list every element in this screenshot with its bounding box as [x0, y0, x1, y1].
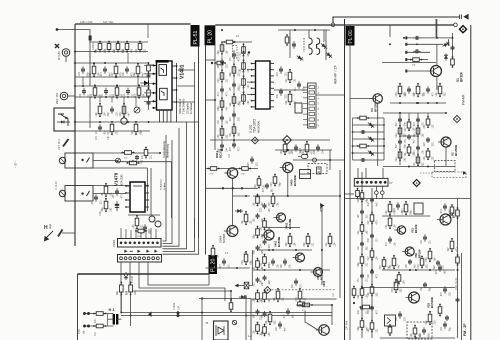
resistor R293 [238, 91, 250, 104]
node junction [436, 37, 438, 39]
resistor R66 [438, 304, 442, 317]
capacitor C1432 [147, 100, 151, 105]
antenna arrow top right [460, 14, 469, 20]
svg-text:4n7: 4n7 [104, 48, 107, 53]
capacitor C222 [414, 145, 424, 154]
input arrow LML [56, 28, 59, 31]
label V3 [370, 103, 377, 112]
wire ZF column 2 [371, 188, 373, 338]
node on border 3 [74, 121, 76, 123]
wire AF right column [321, 205, 323, 285]
wire ladder spine right [383, 118, 385, 160]
node junction [268, 249, 270, 251]
filter block FL51 [414, 203, 423, 214]
svg-text:221: 221 [116, 130, 119, 135]
resistor R57 [447, 238, 459, 252]
resistor R65 [367, 284, 379, 297]
node junction [415, 269, 417, 271]
pin strip X270 pin 5 stub [303, 108, 308, 110]
wire left border of keyboard block [77, 274, 79, 340]
IC V1470 right pin 7 [145, 199, 149, 201]
pin strip X270 pin 5 [309, 107, 315, 110]
IC V1401 pin 5 [152, 100, 156, 102]
svg-text:TDA 1072: TDA 1072 [252, 119, 256, 133]
capacitor C12 [413, 49, 421, 53]
resistor R65 [394, 272, 406, 285]
capacitor C202 [396, 139, 406, 148]
connector P1401 pin 4 [133, 242, 136, 245]
svg-text:BC558B: BC558B [277, 237, 281, 247]
resistor R53 [450, 204, 454, 216]
svg-text:332: 332 [274, 320, 277, 325]
svg-text:472: 472 [95, 135, 98, 140]
svg-text:2k2: 2k2 [259, 226, 262, 231]
svg-text:102: 102 [261, 202, 264, 207]
IC V1401 pin 2 [152, 73, 156, 75]
wire row B bottom rail [75, 76, 148, 78]
wire FM mid top rail [383, 112, 445, 114]
node junction [233, 139, 235, 141]
wire V3 emitter down [377, 103, 379, 166]
svg-text:473: 473 [379, 265, 382, 270]
node junction [371, 269, 373, 271]
wire AM column 3 chain [243, 45, 245, 103]
transistor V2 [438, 137, 451, 147]
wire ZF lower rail [362, 287, 455, 289]
capacitor C403 [254, 245, 264, 254]
IC V1401 right pin 11 [172, 65, 177, 67]
node junction [82, 85, 84, 87]
resistor R430 [254, 176, 266, 189]
svg-text:BF256: BF256 [373, 103, 377, 112]
wire AM top-left rail [222, 41, 252, 43]
pin strip X270 outline [308, 83, 317, 128]
wire V400 down [287, 173, 289, 197]
resistor R52 [401, 201, 413, 215]
resistor R1603 [93, 312, 106, 316]
wire collector rail V1403 [233, 195, 251, 197]
resistor R1602 [125, 282, 137, 296]
resistor R212 [404, 144, 416, 157]
wire AM input column [214, 40, 216, 150]
preset wiper mark 2 [87, 191, 90, 196]
resistor R1408 [141, 147, 153, 159]
pin strip X270 pin 7 stub [303, 119, 308, 121]
connector X51 pin 1 [356, 181, 359, 184]
IC V1401 pin 1 [152, 64, 156, 66]
capacitor C275 [218, 114, 228, 124]
arrow A5U [320, 203, 325, 208]
capacitor C280 [230, 51, 240, 61]
connector X1401 socket [118, 255, 162, 263]
resistor R21 [357, 116, 369, 120]
node AM b [211, 62, 213, 64]
wire X1401 pin3 to AF block [130, 262, 231, 299]
resistor R1504 [134, 84, 146, 98]
resistor R58 [357, 318, 369, 331]
wire antenna rail drop [436, 19, 438, 38]
resistor R54 [357, 254, 369, 267]
IC V1401 right bus [176, 63, 178, 122]
resistor R13 [451, 56, 455, 68]
node on border 1 [74, 62, 76, 64]
varicap V4 [441, 39, 451, 49]
IC V270 left pin 5 [251, 87, 256, 89]
capacitor C11 [413, 36, 421, 40]
svg-text:104: 104 [104, 112, 107, 117]
IC V1401 pin 6 [152, 107, 156, 109]
resistor R1512 [133, 63, 145, 77]
node junction [361, 287, 363, 289]
wire left border of FM block [349, 25, 351, 340]
dashed filter box F282 [308, 164, 327, 174]
resistor R221 [413, 125, 425, 138]
capacitor C66 [368, 305, 378, 314]
svg-text:68p: 68p [357, 326, 360, 331]
svg-text:332: 332 [238, 132, 241, 137]
resistor R58 [391, 279, 403, 293]
svg-text:223: 223 [395, 133, 398, 138]
capacitor C52 [441, 203, 451, 213]
pin strip X270 pin 6 [309, 113, 315, 116]
capacitor C51 [394, 202, 404, 212]
wire bottom rail of RF divider [75, 51, 148, 53]
component MX1401 [244, 282, 249, 289]
svg-text:221: 221 [141, 224, 144, 229]
capacitor C220 [414, 117, 424, 126]
node junction [399, 112, 401, 114]
node junction [214, 99, 216, 101]
capacitor C65 [421, 282, 431, 291]
svg-text:223: 223 [270, 182, 273, 187]
capacitor C424 [276, 321, 286, 331]
diode V21 [367, 121, 376, 129]
trimmer circle C1470 [116, 158, 121, 163]
wire V1401 pin 3 lead [144, 83, 153, 85]
resistor R52 [357, 222, 369, 235]
connector P1401 plug [118, 239, 162, 248]
wire ladder rung 6 [353, 152, 385, 154]
wire FM mid column 1 [399, 113, 401, 165]
junction pair a [83, 312, 90, 315]
wire ZF mid rail [382, 269, 455, 271]
svg-text:2k2: 2k2 [404, 157, 407, 162]
opto IC V1602 box [214, 321, 229, 340]
svg-text:151: 151 [101, 192, 104, 197]
node AF m2 [295, 249, 297, 251]
node junction [389, 43, 391, 45]
svg-text:V402: V402 [285, 222, 289, 229]
svg-text:104: 104 [334, 242, 337, 247]
svg-text:104: 104 [178, 305, 181, 310]
IC V270 left pin 4 [251, 81, 256, 83]
connector X1401 pin 2 [124, 257, 127, 260]
IC V1401 right pin 13 [172, 89, 177, 91]
capacitor C1502 [80, 88, 90, 98]
IC V270 left pin 8 [251, 106, 256, 108]
resistor R154 [135, 41, 147, 53]
resistor R50 [356, 188, 360, 200]
wire FM mid stub 2 [427, 113, 429, 119]
connector X51 pin 7 [384, 181, 387, 184]
wire X51 pin to node b [381, 186, 383, 191]
plug arrow mark 4 [154, 250, 157, 253]
wire inner border FM-ZF block [461, 253, 463, 340]
connector X1401 pin 3 [129, 257, 132, 260]
IC V1401 inner transistor a [161, 68, 164, 73]
svg-text:2k2: 2k2 [247, 100, 250, 105]
svg-text:221: 221 [325, 242, 328, 247]
resistor R270b [214, 61, 226, 65]
relay box K400 [300, 170, 311, 179]
wire V1401 pin 5 lead [144, 100, 153, 102]
node below V401 c [241, 187, 243, 189]
svg-text:221: 221 [259, 298, 262, 303]
plug arrow mark 3 [146, 250, 149, 253]
node junction [147, 185, 149, 187]
resistor R406 [252, 290, 264, 303]
wire H1 bottom rail [83, 325, 114, 327]
varicap V5 [444, 54, 448, 61]
wire top border of keyboard block [78, 273, 209, 275]
dashed filter box F1b [432, 172, 466, 178]
resistor R230 [423, 116, 435, 129]
dashed box F53 [407, 322, 432, 339]
label V405 [322, 280, 326, 287]
svg-text:473: 473 [107, 130, 110, 135]
label V400 [290, 175, 297, 186]
IC V1401 right pin 14 [172, 101, 177, 103]
wire node a down [375, 195, 377, 199]
svg-text:332: 332 [444, 92, 447, 97]
test point diamond near V1 [458, 25, 467, 34]
capacitor C282 [230, 81, 240, 91]
bus junction pair [177, 311, 180, 317]
svg-text:V401: V401 [274, 240, 278, 247]
capacitor C22 [360, 158, 366, 162]
resistor R270 [217, 41, 229, 54]
wire FM rail 5 to V1 [407, 70, 429, 72]
svg-text:PL-51: PL-51 [193, 31, 199, 45]
node junction [243, 51, 245, 53]
transistor V407 [316, 325, 330, 336]
resistor R404 [252, 258, 264, 271]
wire diamond to rail [286, 144, 288, 150]
svg-text:1k5: 1k5 [135, 48, 138, 53]
transistor V1501 inside tuner box [57, 114, 70, 126]
svg-text:BF199: BF199 [414, 224, 418, 233]
node junction [403, 37, 405, 39]
capacitor C407 [254, 309, 264, 318]
capacitor C1506 [108, 106, 118, 116]
preset box 1 [65, 153, 93, 168]
svg-text:104: 104 [132, 224, 135, 229]
svg-text:1k5: 1k5 [226, 50, 229, 55]
svg-text:V1470: V1470 [114, 172, 119, 186]
transistor V406 [293, 253, 305, 262]
module tag PL-51 [191, 25, 200, 47]
wire preset 1 top out [93, 152, 160, 154]
capacitor C410 [261, 203, 271, 212]
resistor R424 [273, 288, 285, 302]
IC V270 left pin 7 [251, 100, 256, 102]
node junction [120, 312, 122, 314]
label V51 [411, 224, 418, 233]
IC V1401 inner block 2 [160, 88, 168, 100]
node ladder c [352, 131, 354, 133]
trimmer C246 [313, 158, 317, 162]
node emitter rail a [399, 102, 401, 104]
test point diamond AM out [283, 136, 292, 145]
plug dash mark [130, 250, 134, 252]
node preset box 1 [81, 159, 83, 161]
node junction [436, 102, 438, 104]
label V62 [448, 209, 455, 218]
node junction [299, 269, 301, 271]
svg-text:4n7: 4n7 [398, 264, 401, 269]
capacitor C62 [456, 297, 460, 303]
node on border 2 [74, 85, 76, 87]
svg-text:68p: 68p [250, 260, 253, 265]
node junction [201, 312, 203, 314]
svg-text:104: 104 [113, 48, 116, 53]
capacitor C211 [405, 134, 415, 143]
wire keyboard line 6 into P1401 [145, 230, 147, 238]
wire ladder rung 2 [353, 124, 385, 126]
discriminator box F52 [385, 315, 396, 326]
resistor R411 [259, 218, 271, 231]
wire antenna branch [89, 40, 91, 86]
svg-text:2k2: 2k2 [238, 68, 241, 73]
wire keyboard line 5 into P1401 [140, 229, 142, 238]
IC V1470 outline [130, 182, 145, 212]
node junction [329, 159, 331, 161]
IC V270 right pin 10 [270, 69, 274, 71]
IC V270 right pin 16 [270, 106, 274, 108]
label V401 [274, 237, 281, 247]
electrolytic capacitor C1509 [121, 118, 127, 124]
transistor V401 middle [224, 168, 237, 178]
node junction [148, 121, 150, 123]
resistor R421 [285, 233, 297, 247]
wire keyboard line 1 into P1401 [120, 228, 122, 238]
resistor R59 [425, 311, 437, 325]
wire ZF rail 2 [382, 215, 430, 217]
capacitor C200 [396, 117, 406, 126]
wire right drop [245, 295, 247, 340]
resistor R55 [389, 255, 401, 269]
label V401 middle [215, 148, 222, 158]
node junction [94, 51, 96, 53]
node junction [115, 76, 117, 78]
svg-text:473: 473 [238, 84, 241, 89]
svg-text:151: 151 [263, 184, 266, 189]
svg-text:100u: 100u [99, 210, 102, 216]
resistor R423 [325, 233, 337, 247]
ferrite bead on input [89, 36, 92, 41]
wire R1602 down [130, 292, 132, 326]
transistor V400 [280, 163, 293, 173]
wire ZF rail top [345, 198, 470, 200]
connector X51 pin 5 [375, 181, 378, 184]
connector GB400 [317, 167, 322, 174]
resistor R276 [217, 125, 229, 138]
svg-text:AM SIGNAL: AM SIGNAL [258, 120, 261, 133]
svg-text:4n7: 4n7 [367, 220, 370, 225]
capacitor C61 [441, 321, 451, 331]
capacitor C1471 [113, 188, 123, 198]
wire preset 2 mid out [93, 193, 126, 195]
wire into X51 c [382, 168, 384, 178]
crystal B1470 [149, 216, 161, 227]
capacitor C56 [436, 264, 446, 274]
wire MX1401 to column [249, 285, 253, 287]
wire FM supply drop [389, 25, 391, 37]
capacitor C60 [420, 327, 430, 337]
wire AF far right column [339, 170, 341, 298]
svg-text:1k5: 1k5 [273, 297, 276, 302]
capacitor C1511 [101, 66, 111, 76]
svg-text:C1501: C1501 [92, 42, 95, 50]
wire ladder rung 5 [353, 145, 385, 147]
resistor R1505 [95, 103, 107, 117]
relay box mark [300, 173, 311, 175]
capacitor C1510 [79, 66, 89, 76]
wire V1401 pin1 feed [149, 64, 154, 66]
resistor R1421 [207, 167, 219, 176]
svg-text:104: 104 [268, 226, 271, 231]
capacitor C17 [424, 86, 434, 96]
IC V1401 bottom pin 9 [166, 110, 168, 123]
rail start tick [405, 70, 407, 73]
coil L280 [309, 38, 312, 54]
resistor R56 [357, 286, 369, 299]
wire V1401 to border 2 [178, 85, 196, 87]
wire to V270 pin 4 [247, 81, 252, 83]
svg-text:1k5: 1k5 [125, 290, 128, 295]
svg-text:104: 104 [394, 224, 397, 229]
test point ZF input diamond [412, 179, 421, 188]
wire H1 left link [107, 314, 109, 327]
node X51 a [375, 191, 379, 195]
node junction [159, 152, 161, 154]
wire keyboard rail across [199, 298, 251, 300]
IC V1401 bottom pin 10 [170, 110, 172, 123]
wire keyboard line 4 into P1401 [135, 228, 137, 238]
pin strip X270 pin 4 stub [303, 102, 308, 104]
wire X51 pin to node a [375, 186, 377, 191]
wire keyboard drop [201, 299, 203, 340]
connector P1401 pin 7 [147, 242, 150, 245]
resistor R1601 [116, 282, 128, 296]
connector P1401 pin 2 [124, 242, 127, 245]
svg-text:2x Netzteil: 2x Netzteil [190, 102, 193, 114]
resistor R402 [252, 226, 264, 239]
svg-text:BF256B: BF256B [454, 144, 458, 156]
arrow left end of rails [148, 312, 152, 318]
dashed wire into F1 [420, 172, 432, 174]
preset pot P1 socket [59, 157, 65, 163]
svg-text:473: 473 [268, 202, 271, 207]
resistor R201 [395, 125, 407, 138]
pin strip X270 pin 1 [309, 86, 315, 89]
node at PL06 branch [331, 23, 335, 27]
svg-text:68p: 68p [279, 182, 282, 187]
connector P1401 pin 1 [120, 242, 123, 245]
svg-text:104: 104 [403, 280, 406, 285]
svg-text:102: 102 [432, 124, 435, 129]
wire bus line 4 wrap to X1401 [163, 122, 187, 249]
